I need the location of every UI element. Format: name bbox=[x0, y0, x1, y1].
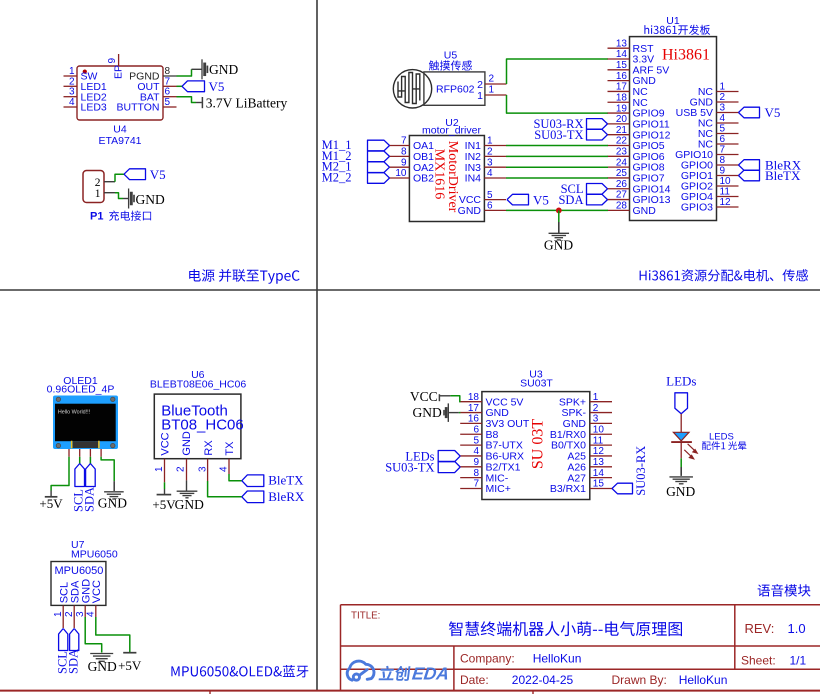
sheet section divider horizontal bbox=[0, 289, 820, 291]
svg-text:SU03-TX: SU03-TX bbox=[534, 128, 583, 142]
U1 pin 10 GPIO2 stub bbox=[717, 185, 739, 187]
U1 pin 4 NC stub bbox=[717, 122, 739, 124]
svg-text:1: 1 bbox=[593, 392, 599, 403]
wire U4 PGND to GND bbox=[177, 69, 192, 76]
net flag SCL at OLED1 pin2 bbox=[79, 457, 81, 464]
svg-text:VCC: VCC bbox=[91, 580, 103, 603]
svg-text:12: 12 bbox=[593, 446, 605, 457]
U4 pin 5 BUTTON stub bbox=[163, 106, 177, 108]
svg-text:4: 4 bbox=[219, 466, 230, 472]
svg-text:5: 5 bbox=[720, 124, 726, 135]
U1 pin 23 GPIO6 stub bbox=[608, 155, 630, 157]
ground GND below U2 bbox=[558, 222, 560, 233]
svg-text:5: 5 bbox=[487, 190, 493, 201]
U1 pin 7 GPIO10 stub bbox=[717, 154, 739, 156]
svg-text:U4: U4 bbox=[113, 124, 127, 136]
OLED1 pin 2 stub bbox=[79, 449, 81, 457]
svg-text:VCC: VCC bbox=[160, 432, 172, 455]
svg-text:4: 4 bbox=[720, 113, 726, 124]
svg-text:1: 1 bbox=[488, 85, 494, 96]
U3 pin 16 3V3 OUT stub bbox=[460, 422, 482, 424]
LED label accessory halo bbox=[702, 441, 746, 450]
svg-text:1/1: 1/1 bbox=[790, 653, 807, 667]
svg-text:2: 2 bbox=[488, 74, 494, 85]
svg-text:5: 5 bbox=[165, 97, 171, 108]
svg-text:SU03T: SU03T bbox=[520, 378, 553, 390]
svg-text:HelloKun: HelloKun bbox=[679, 673, 728, 687]
svg-text:GND: GND bbox=[633, 205, 657, 217]
wire LED to ground bbox=[680, 458, 682, 467]
svg-text:P1: P1 bbox=[90, 211, 103, 223]
net flag M1_2 at U2 pin 8 bbox=[368, 151, 390, 162]
U3 pin 7 MIC+ stub bbox=[460, 488, 482, 490]
svg-text:MPU6050: MPU6050 bbox=[71, 548, 118, 560]
net flag M2_1 at U2 pin 9 bbox=[368, 162, 390, 173]
wire U2 IN3 to U1 bbox=[506, 166, 608, 168]
svg-text:BLEBT08E06_HC06: BLEBT08E06_HC06 bbox=[150, 378, 246, 390]
svg-text:GND: GND bbox=[209, 62, 238, 77]
section label MPU6050 OLED bluetooth bbox=[171, 665, 308, 677]
svg-text:1: 1 bbox=[477, 90, 483, 102]
OLED1 pin 3 stub bbox=[89, 449, 91, 457]
svg-text:B3/RX1: B3/RX1 bbox=[550, 483, 586, 495]
net flag BleTX at U6 bbox=[242, 475, 264, 487]
svg-text:REV:: REV: bbox=[745, 621, 775, 636]
U1 pin 3 USB 5V stub bbox=[717, 112, 739, 114]
U5 pin 1 stub bbox=[485, 94, 507, 96]
svg-text:26: 26 bbox=[616, 179, 628, 190]
svg-text:1: 1 bbox=[53, 611, 64, 617]
U7 pin 3 stub bbox=[84, 605, 86, 617]
OLED1 pin 4 stub bbox=[100, 449, 102, 457]
svg-text:GND: GND bbox=[666, 484, 695, 499]
wire VCC to U3 pin18 bbox=[450, 396, 460, 402]
EasyEDA logo text bbox=[379, 666, 411, 681]
svg-text:23: 23 bbox=[616, 147, 628, 158]
svg-text:4: 4 bbox=[86, 611, 97, 617]
U6 pin 1 stub bbox=[164, 459, 166, 483]
sheet section divider vertical bbox=[316, 0, 318, 690]
title block border bbox=[341, 605, 820, 690]
svg-text:3: 3 bbox=[720, 103, 726, 114]
svg-text:+5V: +5V bbox=[152, 497, 176, 512]
svg-text:6: 6 bbox=[720, 134, 726, 145]
U7 pin 2 stub bbox=[73, 605, 75, 628]
wire OLED1 pin1 to +5V bbox=[51, 457, 69, 491]
svg-text:2: 2 bbox=[720, 92, 726, 103]
U2 pin 3 IN3 stub bbox=[484, 166, 506, 168]
net flag SU03-RX to U1 GPIO11 bbox=[587, 119, 608, 130]
U3 pin 2 SPK- stub bbox=[590, 412, 612, 414]
net flag BleRX at U1 GPIO0 bbox=[739, 160, 760, 171]
svg-text:16: 16 bbox=[616, 71, 628, 82]
svg-text:3: 3 bbox=[75, 611, 86, 617]
svg-text:1: 1 bbox=[154, 466, 165, 472]
svg-text:13: 13 bbox=[616, 38, 628, 49]
sheet border tick 2 bbox=[532, 691, 534, 694]
svg-text:10: 10 bbox=[720, 176, 732, 187]
U2 pin 2 IN2 stub bbox=[484, 155, 506, 157]
svg-text:HelloKun: HelloKun bbox=[533, 651, 582, 665]
svg-text:1: 1 bbox=[95, 188, 101, 200]
svg-text:19: 19 bbox=[616, 103, 628, 114]
wire OLED1 pin4 to GND bbox=[101, 457, 114, 481]
ground GND at U4 PGND bbox=[192, 68, 203, 70]
U2 pin 6 GND stub bbox=[484, 209, 506, 211]
svg-text:2: 2 bbox=[487, 147, 493, 158]
P1 pin 1 stub bbox=[104, 192, 115, 194]
svg-text:5: 5 bbox=[473, 435, 479, 446]
U3 pin 8 MIC- stub bbox=[460, 477, 482, 479]
svg-text:11: 11 bbox=[593, 435, 604, 446]
svg-text:15: 15 bbox=[593, 479, 605, 490]
U3 pin 6 B8 stub bbox=[460, 433, 482, 435]
net flag LEDs at U3 B6-URX bbox=[438, 451, 460, 462]
LED cathode lead bbox=[680, 442, 682, 458]
sensor U5 circle bbox=[393, 70, 431, 108]
svg-text:M2_2: M2_2 bbox=[322, 170, 352, 184]
U5 pin 2 stub bbox=[485, 83, 507, 85]
power +5V at OLED1 bbox=[50, 491, 52, 497]
svg-text:9: 9 bbox=[401, 157, 407, 168]
ground GND at U6 bbox=[186, 480, 188, 490]
svg-text:U1: U1 bbox=[666, 15, 680, 27]
net flag SU03-TX to U1 GPIO12 bbox=[587, 129, 608, 140]
wire U6 RX to BleRX bbox=[208, 481, 242, 497]
U4 pin 4 LED3 stub bbox=[64, 106, 78, 108]
section label voice module bbox=[758, 584, 811, 597]
svg-text:9: 9 bbox=[473, 457, 479, 468]
net flag V5 at U2 VCC bbox=[507, 194, 529, 205]
net flag SU03-TX at U3 B2/TX1 bbox=[438, 461, 460, 472]
svg-text:VCC: VCC bbox=[410, 389, 438, 404]
svg-text:24: 24 bbox=[616, 157, 628, 168]
section label power TypeC bbox=[189, 269, 299, 284]
wire P1 pin1 to GND bbox=[115, 193, 123, 199]
svg-text:SU03-RX: SU03-RX bbox=[634, 446, 648, 496]
svg-text:17: 17 bbox=[468, 403, 480, 414]
wire U5 pin2 to U1 3.3V bbox=[507, 59, 609, 84]
svg-text:18: 18 bbox=[616, 92, 628, 103]
U1 pin 6 NC stub bbox=[717, 143, 739, 145]
U1 pin 12 GPIO3 stub bbox=[717, 206, 739, 208]
U1 pin 17 NC stub bbox=[608, 90, 630, 92]
title text bbox=[449, 621, 682, 636]
svg-text:V5: V5 bbox=[209, 79, 225, 94]
U3 pin 11 B0/TX0 stub bbox=[590, 444, 612, 446]
diode LEDS symbol bbox=[673, 432, 689, 441]
OLED1 pin 1 stub bbox=[68, 449, 70, 457]
svg-text:2022-04-25: 2022-04-25 bbox=[512, 673, 574, 687]
U1 pin 16 GND stub bbox=[608, 80, 630, 82]
svg-text:GND: GND bbox=[544, 238, 573, 253]
power +5V at U7 bbox=[123, 652, 136, 654]
svg-text:motor_driver: motor_driver bbox=[422, 124, 481, 136]
svg-text:GND: GND bbox=[88, 659, 117, 674]
U1 pin 1 NC stub bbox=[717, 91, 739, 93]
wire U2 IN1 to U1 bbox=[506, 145, 608, 147]
U1 pin 27 GPIO13 stub bbox=[608, 199, 630, 201]
svg-text:14: 14 bbox=[616, 49, 628, 60]
svg-text:Hello World!!!: Hello World!!! bbox=[58, 409, 91, 415]
wire U6 VCC to +5V bbox=[164, 482, 166, 489]
U7 pin 4 stub bbox=[95, 605, 97, 617]
U1 pin 19 GPIO9 stub bbox=[608, 112, 630, 114]
svg-text:12: 12 bbox=[720, 197, 732, 208]
svg-text:RFP602: RFP602 bbox=[436, 84, 475, 96]
svg-text:27: 27 bbox=[616, 190, 628, 201]
U3 pin 10 B1/RX0 stub bbox=[590, 433, 612, 435]
svg-text:BT08_HC06: BT08_HC06 bbox=[161, 417, 244, 434]
svg-text:3: 3 bbox=[593, 414, 599, 425]
net flag SDA at U7 bbox=[70, 629, 79, 651]
svg-text:13: 13 bbox=[593, 457, 605, 468]
U7 pin 1 stub bbox=[62, 605, 64, 628]
svg-text:28: 28 bbox=[616, 201, 628, 212]
U2 pin 10 OB2 stub bbox=[390, 177, 410, 179]
U1 pin 2 GND stub bbox=[717, 101, 739, 103]
svg-text:V5: V5 bbox=[533, 192, 549, 207]
U6 pin 4 stub bbox=[228, 459, 230, 474]
OLED1 connector bar bbox=[73, 441, 99, 448]
OLED1 module body bbox=[53, 396, 118, 450]
module U6 body bbox=[154, 394, 241, 459]
svg-text:Hi3861: Hi3861 bbox=[662, 46, 710, 63]
svg-text:7: 7 bbox=[165, 76, 171, 87]
U3 pin 1 SPK+ stub bbox=[590, 401, 612, 403]
svg-text:U5: U5 bbox=[444, 50, 458, 62]
net port 3.7V LiBattery bbox=[196, 102, 202, 104]
U2 pin 1 IN1 stub bbox=[484, 145, 506, 147]
wire U6 TX to BleTX bbox=[229, 474, 242, 481]
svg-text:6: 6 bbox=[473, 424, 479, 435]
svg-text:+5V: +5V bbox=[118, 658, 142, 673]
U1 pin 18 NC stub bbox=[608, 101, 630, 103]
svg-text:9: 9 bbox=[107, 58, 118, 64]
ground GND below LED bbox=[680, 467, 682, 476]
svg-text:8: 8 bbox=[720, 155, 726, 166]
net flag SCL to U1 GPIO14 bbox=[587, 184, 608, 195]
svg-text:Date:: Date: bbox=[460, 673, 489, 687]
svg-text:4: 4 bbox=[69, 97, 75, 108]
chip U4 pin1 dot bbox=[83, 70, 87, 74]
U1 value hi3861 dev board bbox=[644, 25, 710, 35]
svg-text:MIC+: MIC+ bbox=[486, 483, 511, 495]
U4 pin 3 LED2 stub bbox=[64, 96, 78, 98]
svg-text:TX: TX bbox=[224, 441, 236, 456]
svg-text:1: 1 bbox=[487, 136, 493, 147]
svg-text:14: 14 bbox=[593, 468, 605, 479]
svg-text:18: 18 bbox=[468, 392, 480, 403]
svg-text:2: 2 bbox=[176, 466, 187, 472]
svg-text:RX: RX bbox=[203, 440, 215, 456]
U1 pin 22 GPIO5 stub bbox=[608, 144, 630, 146]
U2 pin 7 OA1 stub bbox=[390, 145, 410, 147]
svg-text:3.7V LiBattery: 3.7V LiBattery bbox=[206, 96, 288, 111]
svg-text:MPU6050: MPU6050 bbox=[55, 565, 104, 577]
svg-text:8: 8 bbox=[401, 147, 407, 158]
wire GND to U3 pin17 bbox=[459, 412, 461, 414]
U1 pin 13 RST stub bbox=[608, 47, 630, 49]
svg-text:SU 03T: SU 03T bbox=[529, 419, 546, 469]
svg-text:+5V: +5V bbox=[39, 496, 63, 511]
OLED1 screen bbox=[55, 404, 116, 442]
svg-text:6: 6 bbox=[487, 201, 493, 212]
OLED1 corner screws bbox=[56, 397, 60, 401]
net flag V5 at U4 OUT bbox=[177, 85, 183, 87]
svg-text:4: 4 bbox=[473, 446, 479, 457]
U3 pin 14 A27 stub bbox=[590, 477, 612, 479]
net flag V5 at U1 USB 5V bbox=[739, 107, 760, 118]
U6 pin 2 stub bbox=[186, 459, 188, 481]
svg-text:GND: GND bbox=[136, 192, 165, 207]
svg-text:0.96OLED_4P: 0.96OLED_4P bbox=[47, 384, 115, 396]
svg-text:Drawn By:: Drawn By: bbox=[612, 673, 667, 687]
svg-text:SU03-TX: SU03-TX bbox=[385, 460, 434, 474]
U4 pin 8 PGND stub bbox=[163, 75, 177, 77]
U5 body bbox=[424, 72, 485, 105]
U1 pin 28 GND stub bbox=[608, 209, 630, 211]
U3 pin 12 A25 stub bbox=[590, 455, 612, 457]
svg-text:3: 3 bbox=[197, 466, 208, 472]
U5 sensor comb pattern bbox=[398, 73, 420, 104]
wire U7 GND to ground bbox=[85, 617, 102, 653]
U3 pin 18 VCC 5V stub bbox=[460, 401, 482, 403]
U1 pin 20 GPIO11 stub bbox=[608, 123, 630, 125]
svg-text:BleRX: BleRX bbox=[268, 489, 305, 504]
U4 pin 9 EP top stub bbox=[118, 54, 120, 66]
U4 pin 6 BAT stub bbox=[163, 96, 177, 98]
wire U7 VCC to +5V bbox=[96, 617, 130, 652]
net flag M2_2 at U2 pin 10 bbox=[368, 173, 390, 184]
OLED1 connector marks bbox=[71, 441, 73, 449]
U2 pin 8 OB1 stub bbox=[390, 155, 410, 157]
U2 pin 5 VCC stub bbox=[484, 199, 506, 201]
section label Hi3861 resources bbox=[640, 269, 809, 281]
svg-text:V5: V5 bbox=[150, 167, 166, 182]
connector P1 body bbox=[83, 171, 104, 203]
ground GND at U7 bbox=[90, 653, 113, 655]
wire U2 GND to U1 GND bbox=[506, 209, 608, 211]
U4 pin 2 LED1 stub bbox=[64, 85, 78, 87]
svg-text:2: 2 bbox=[69, 76, 75, 87]
U3 pin 3 GND stub bbox=[590, 422, 612, 424]
wire U4 BAT to battery bbox=[177, 97, 197, 103]
net flag SU03-RX at U3 B3/RX1 bbox=[612, 483, 633, 494]
svg-text:LEDS: LEDS bbox=[709, 432, 734, 443]
svg-text:10: 10 bbox=[395, 168, 407, 179]
svg-text:GND: GND bbox=[458, 205, 482, 217]
svg-text:1.0: 1.0 bbox=[788, 621, 806, 636]
junction dot on GND wire bbox=[556, 208, 562, 214]
svg-text:20: 20 bbox=[616, 114, 628, 125]
U3 pin 15 B3/RX1 stub bbox=[590, 488, 612, 490]
svg-text:7: 7 bbox=[720, 145, 726, 156]
svg-text:SDA: SDA bbox=[67, 649, 81, 674]
sensor U7 body bbox=[51, 562, 106, 606]
P1 label charging port bbox=[109, 211, 151, 221]
svg-text:1: 1 bbox=[720, 82, 726, 93]
svg-text:TITLE:: TITLE: bbox=[351, 610, 380, 621]
svg-text:V5: V5 bbox=[765, 105, 781, 120]
sheet bottom border bbox=[0, 690, 820, 692]
svg-text:LED3: LED3 bbox=[81, 102, 107, 114]
svg-text:7: 7 bbox=[473, 479, 479, 490]
net flag SDA at OLED1 pin3 bbox=[89, 457, 91, 464]
driver U2 body bbox=[409, 136, 484, 222]
U1 pin 9 GPIO1 stub bbox=[717, 175, 739, 177]
power +5V at U6 bbox=[164, 489, 166, 494]
svg-text:4: 4 bbox=[487, 168, 493, 179]
U4 pin 1 SW stub bbox=[64, 75, 78, 77]
svg-text:SDA: SDA bbox=[558, 193, 583, 207]
svg-text:GND: GND bbox=[175, 497, 204, 512]
LED anode lead bbox=[680, 414, 682, 432]
ground GND at OLED1 bbox=[113, 481, 115, 491]
module U3 body bbox=[482, 392, 590, 500]
svg-text:LEDs: LEDs bbox=[666, 374, 696, 389]
U3 pin 4 B6-URX stub bbox=[460, 455, 482, 457]
svg-text:SDA: SDA bbox=[82, 487, 96, 512]
U3 pin 5 B7-UTX stub bbox=[460, 444, 482, 446]
U2 pin 9 OA2 stub bbox=[390, 166, 410, 168]
svg-text:2: 2 bbox=[64, 611, 75, 617]
svg-text:GND: GND bbox=[181, 431, 193, 456]
svg-text:8: 8 bbox=[473, 468, 479, 479]
svg-text:17: 17 bbox=[616, 82, 628, 93]
wire P1 pin2 to V5 bbox=[115, 174, 124, 182]
U1 pin 14 3.3V stub bbox=[608, 58, 630, 60]
svg-text:Company:: Company: bbox=[460, 651, 515, 665]
U6 pin 3 stub bbox=[207, 459, 209, 481]
U1 pin 21 GPIO12 stub bbox=[608, 134, 630, 136]
svg-text:22: 22 bbox=[616, 136, 628, 147]
svg-text:21: 21 bbox=[616, 125, 628, 136]
svg-text:25: 25 bbox=[616, 168, 628, 179]
svg-text:10: 10 bbox=[593, 424, 605, 435]
wire U2 IN2 to U1 bbox=[506, 155, 608, 157]
svg-text:ETA9741: ETA9741 bbox=[99, 135, 142, 147]
svg-text:9: 9 bbox=[720, 166, 726, 177]
svg-text:15: 15 bbox=[616, 60, 628, 71]
svg-text:Sheet:: Sheet: bbox=[741, 653, 776, 667]
svg-text:16: 16 bbox=[468, 414, 480, 425]
svg-text:7: 7 bbox=[401, 136, 407, 147]
svg-text:3: 3 bbox=[487, 157, 493, 168]
wire junction down to ground bbox=[558, 210, 560, 222]
U1 pin 26 GPIO14 stub bbox=[608, 188, 630, 190]
sheet border tick 1 bbox=[209, 691, 211, 694]
ground GND at P1 bbox=[123, 198, 129, 200]
svg-text:11: 11 bbox=[720, 187, 731, 198]
U1 pin 24 GPIO8 stub bbox=[608, 166, 630, 168]
wire U5 pin1 to U1 GPIO9 bbox=[507, 95, 609, 113]
svg-text:GND: GND bbox=[98, 495, 127, 510]
svg-text:EP: EP bbox=[112, 65, 124, 79]
U1 pin 5 NC stub bbox=[717, 133, 739, 135]
svg-text:2: 2 bbox=[593, 403, 599, 414]
svg-text:IN4: IN4 bbox=[465, 173, 482, 185]
U1 pin 11 GPIO4 stub bbox=[717, 196, 739, 198]
U1 pin 15 ARF 5V stub bbox=[608, 69, 630, 71]
svg-text:OB2: OB2 bbox=[413, 173, 434, 185]
LED emission arrows bbox=[684, 444, 697, 459]
svg-text:BleTX: BleTX bbox=[268, 473, 304, 488]
net flag V5 at P1 bbox=[124, 169, 146, 180]
net flag M1_1 at U2 pin 7 bbox=[368, 140, 390, 151]
svg-text:GPIO3: GPIO3 bbox=[681, 202, 713, 214]
wire U2 IN4 to U1 bbox=[506, 177, 608, 179]
